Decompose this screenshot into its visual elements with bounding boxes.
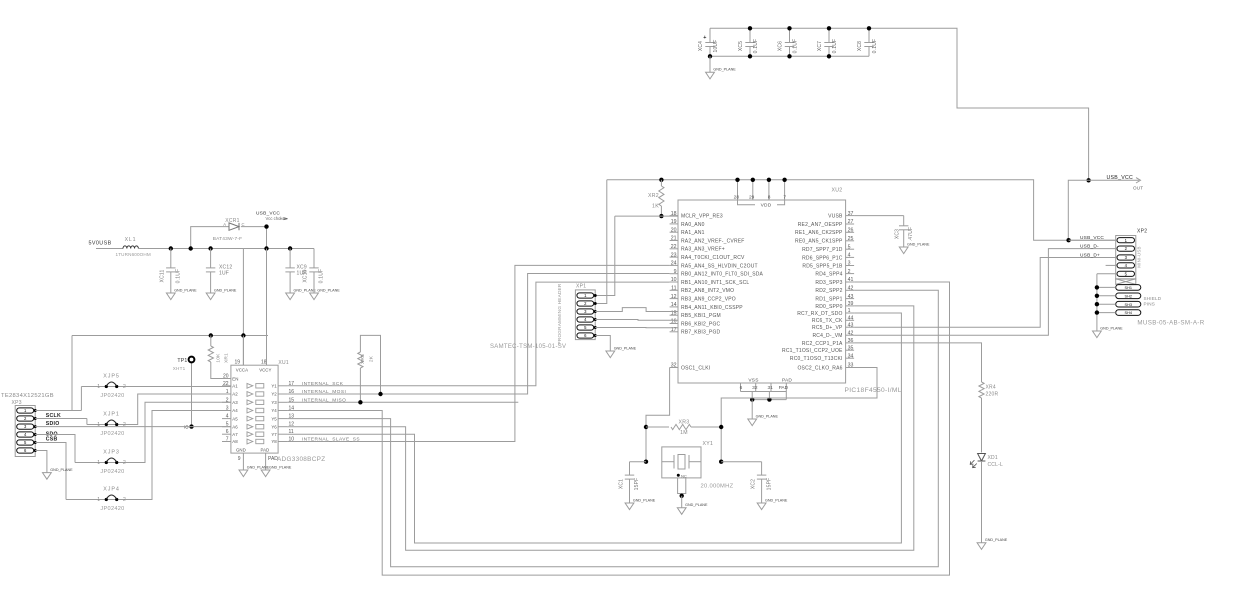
svg-text:1K: 1K: [652, 204, 659, 210]
svg-text:XC6: XC6: [778, 41, 784, 51]
svg-text:VCCA: VCCA: [236, 368, 248, 373]
svg-text:20: 20: [671, 227, 677, 233]
svg-text:GND_PLANE: GND_PLANE: [294, 288, 317, 292]
svg-text:CCL-L: CCL-L: [988, 462, 1003, 468]
svg-text:0.1UF: 0.1UF: [176, 269, 182, 284]
svg-text:220R: 220R: [986, 392, 999, 398]
svg-text:RB1_AN10_INT1_SCK_SCL: RB1_AN10_INT1_SCK_SCL: [681, 280, 749, 286]
svg-text:PAD: PAD: [782, 378, 792, 384]
svg-text:20.000MHZ: 20.000MHZ: [701, 484, 734, 490]
svg-text:XJP5: XJP5: [103, 374, 119, 380]
svg-text:A1: A1: [232, 384, 238, 389]
svg-text:2: 2: [123, 384, 126, 390]
svg-text:JP02420: JP02420: [100, 393, 124, 399]
svg-text:RB6_KBI2_PGC: RB6_KBI2_PGC: [681, 321, 721, 327]
svg-text:XC11: XC11: [159, 270, 165, 283]
svg-text:GND_PLANE: GND_PLANE: [985, 538, 1008, 542]
svg-text:Y5: Y5: [271, 416, 277, 421]
svg-text:XR5: XR5: [360, 354, 366, 364]
svg-text:Y7: Y7: [271, 432, 277, 437]
svg-text:11: 11: [671, 286, 676, 292]
svg-text:XU2: XU2: [832, 188, 843, 194]
svg-text:44: 44: [848, 316, 854, 322]
svg-text:Y4: Y4: [271, 408, 277, 413]
svg-text:2: 2: [123, 422, 126, 428]
svg-text:RD5_SPP5_P1B: RD5_SPP5_P1B: [802, 263, 843, 269]
svg-text:2: 2: [123, 460, 126, 466]
svg-text:C: C: [242, 222, 245, 227]
svg-text:MUSB-05-AB-SM-A-R: MUSB-05-AB-SM-A-R: [1137, 319, 1204, 326]
svg-text:11: 11: [289, 429, 294, 435]
svg-text:PAD: PAD: [268, 456, 278, 462]
svg-text:+: +: [703, 35, 706, 41]
svg-text:9: 9: [238, 456, 241, 462]
svg-text:PROGRAMMING HEADER: PROGRAMMING HEADER: [557, 283, 562, 344]
svg-text:RB0_AN12_INT0_FLT0_SDI_SDA: RB0_AN12_INT0_FLT0_SDI_SDA: [681, 272, 764, 278]
svg-text:RD7_SPP7_P1D: RD7_SPP7_P1D: [802, 247, 843, 253]
svg-text:RD2_SPP2: RD2_SPP2: [815, 288, 842, 294]
svg-text:7: 7: [226, 437, 229, 443]
svg-text:1: 1: [97, 422, 100, 428]
svg-text:18: 18: [261, 360, 267, 366]
svg-text:RA5_AN4_SS_HLVDIN_C2OUT: RA5_AN4_SS_HLVDIN_C2OUT: [681, 263, 758, 269]
svg-text:XC4: XC4: [698, 41, 704, 51]
svg-text:0.1UF: 0.1UF: [753, 39, 759, 54]
svg-text:XC7: XC7: [817, 41, 823, 51]
svg-text:GND_PLANE: GND_PLANE: [174, 288, 197, 292]
svg-text:Y2: Y2: [271, 392, 277, 397]
svg-text:A4: A4: [232, 408, 238, 413]
svg-text:VUSB: VUSB: [828, 214, 843, 220]
svg-text:GND_PLANE: GND_PLANE: [765, 498, 788, 502]
svg-text:18: 18: [671, 211, 677, 217]
svg-text:RD4_SPP4: RD4_SPP4: [815, 272, 842, 278]
svg-text:6: 6: [226, 429, 229, 435]
svg-text:Y6: Y6: [271, 424, 277, 429]
svg-text:8: 8: [768, 194, 771, 200]
svg-text:XJP4: XJP4: [103, 487, 119, 493]
svg-text:XR1: XR1: [223, 353, 229, 363]
svg-text:28: 28: [734, 194, 740, 200]
svg-text:XC2: XC2: [751, 479, 757, 489]
svg-text:RC6_TX_CK: RC6_TX_CK: [812, 318, 843, 324]
svg-text:JP02420: JP02420: [100, 469, 124, 475]
svg-text:INTERNAL_SCK: INTERNAL_SCK: [302, 381, 344, 387]
svg-text:A6: A6: [232, 424, 238, 429]
svg-text:21: 21: [671, 236, 677, 242]
svg-text:GND_PLANE: GND_PLANE: [614, 346, 637, 350]
svg-text:PAD: PAD: [261, 448, 270, 453]
svg-text:RA0_AN0: RA0_AN0: [681, 222, 705, 228]
svg-text:2: 2: [848, 269, 851, 275]
svg-text:XJP1: XJP1: [103, 412, 119, 418]
svg-text:15PF: 15PF: [766, 478, 772, 491]
svg-text:SDIO: SDIO: [46, 421, 60, 427]
svg-text:43: 43: [848, 294, 854, 300]
svg-text:A8: A8: [232, 439, 238, 444]
svg-text:XD1: XD1: [988, 455, 998, 461]
svg-text:USB_VCC: USB_VCC: [1107, 175, 1134, 181]
svg-text:RA4_T0CKI_C1OUT_RCV: RA4_T0CKI_C1OUT_RCV: [681, 255, 745, 261]
svg-text:GND_PLANE: GND_PLANE: [214, 288, 237, 292]
svg-text:TP1: TP1: [177, 358, 187, 364]
svg-text:GND_PLANE: GND_PLANE: [633, 498, 656, 502]
svg-text:SH3: SH3: [1125, 303, 1132, 307]
svg-text:RC5_D+_VP: RC5_D+_VP: [812, 325, 843, 331]
svg-text:2: 2: [123, 497, 126, 503]
svg-text:PAD: PAD: [779, 385, 789, 391]
svg-text:12: 12: [671, 294, 677, 300]
svg-text:XJP3: XJP3: [103, 450, 119, 456]
svg-text:RA3_AN3_VREF+: RA3_AN3_VREF+: [681, 247, 725, 253]
svg-text:A5: A5: [232, 416, 238, 421]
svg-text:RC7_RX_DT_SDO: RC7_RX_DT_SDO: [797, 311, 842, 317]
svg-text:JP02420: JP02420: [100, 506, 124, 512]
svg-text:GND_PLANE: GND_PLANE: [269, 465, 292, 469]
svg-text:31: 31: [767, 385, 773, 391]
svg-text:XL1: XL1: [125, 237, 137, 243]
svg-text:41: 41: [848, 277, 854, 283]
svg-text:0.1UF: 0.1UF: [319, 269, 325, 284]
svg-text:6: 6: [740, 385, 743, 391]
svg-text:RB4_AN11_KBI0_CSSPP: RB4_AN11_KBI0_CSSPP: [681, 305, 743, 311]
svg-text:37: 37: [848, 211, 854, 217]
svg-text:RA1_AN1: RA1_AN1: [681, 230, 705, 236]
svg-text:GND_PLANE: GND_PLANE: [756, 414, 779, 418]
svg-text:SHIELD: SHIELD: [1144, 296, 1162, 301]
svg-text:GND_PLANE: GND_PLANE: [907, 242, 930, 246]
svg-text:32: 32: [671, 363, 677, 369]
svg-text:RC1_T1OSI_CCP2_UOE: RC1_T1OSI_CCP2_UOE: [782, 348, 843, 354]
svg-text:A3: A3: [232, 400, 238, 405]
svg-text:BAT43W-7-F: BAT43W-7-F: [213, 236, 243, 242]
svg-text:JP02420: JP02420: [100, 431, 124, 437]
svg-text:23: 23: [671, 252, 677, 258]
svg-text:PIC18F4550-I/ML: PIC18F4550-I/ML: [845, 387, 902, 394]
svg-text:10: 10: [671, 277, 677, 283]
svg-text:RE0_AN5_CK1SPP: RE0_AN5_CK1SPP: [795, 239, 843, 245]
svg-text:1M: 1M: [680, 430, 688, 436]
svg-text:13: 13: [289, 414, 295, 420]
svg-text:Y3: Y3: [271, 400, 277, 405]
svg-text:RB7_KBI3_PGD: RB7_KBI3_PGD: [681, 330, 721, 336]
svg-text:RE2_AN7_OESPP: RE2_AN7_OESPP: [798, 222, 843, 228]
svg-text:43: 43: [848, 322, 854, 328]
svg-text:GND_PLANE: GND_PLANE: [713, 68, 736, 72]
svg-text:10K: 10K: [215, 353, 221, 363]
svg-text:.47UF: .47UF: [908, 227, 914, 242]
svg-text:10UF: 10UF: [713, 39, 719, 52]
svg-text:19: 19: [671, 219, 677, 225]
svg-text:RE1_AN6_CK2SPP: RE1_AN6_CK2SPP: [795, 230, 843, 236]
svg-text:25: 25: [848, 236, 854, 242]
svg-text:SH4: SH4: [1125, 311, 1132, 315]
svg-text:0.1UF: 0.1UF: [793, 39, 799, 54]
svg-text:RC4_D-_VM: RC4_D-_VM: [812, 333, 842, 339]
svg-text:XC5: XC5: [738, 41, 744, 51]
svg-text:16: 16: [289, 389, 295, 395]
svg-text:Y8: Y8: [271, 439, 277, 444]
svg-text:XP2: XP2: [1137, 229, 1147, 235]
svg-text:XC3: XC3: [895, 229, 901, 239]
svg-text:RD3_SPP3: RD3_SPP3: [815, 280, 842, 286]
svg-text:MCLR_VPP_RE3: MCLR_VPP_RE3: [681, 214, 723, 220]
svg-text:29: 29: [749, 194, 755, 200]
svg-text:OUT: OUT: [1133, 186, 1143, 191]
svg-text:XC1: XC1: [618, 479, 624, 489]
svg-text:NC: NC: [681, 474, 687, 479]
svg-text:1: 1: [97, 497, 100, 503]
svg-text:27: 27: [848, 219, 854, 225]
svg-text:USB_D+: USB_D+: [1080, 253, 1100, 259]
svg-text:VSS: VSS: [748, 378, 758, 384]
svg-text:XR4: XR4: [986, 385, 996, 391]
svg-text:GND: GND: [236, 448, 246, 453]
svg-text:XR3: XR3: [679, 419, 690, 425]
svg-text:A: A: [223, 222, 226, 227]
svg-text:36: 36: [848, 338, 854, 344]
svg-text:SAMTEC-TSM-105-01-SV: SAMTEC-TSM-105-01-SV: [490, 344, 566, 350]
svg-text:RB5_KBI1_PGM: RB5_KBI1_PGM: [681, 313, 721, 319]
svg-text:PINS: PINS: [1144, 302, 1156, 307]
svg-text:42: 42: [848, 330, 854, 336]
svg-text:INTERNAL_SLAVE_SS: INTERNAL_SLAVE_SS: [302, 437, 360, 443]
svg-text:VCCY: VCCY: [259, 368, 271, 373]
svg-text:35: 35: [848, 345, 854, 351]
svg-text:EN: EN: [232, 376, 238, 381]
svg-text:26: 26: [848, 228, 854, 234]
svg-text:RC2_CCP1_P1A: RC2_CCP1_P1A: [802, 341, 843, 347]
svg-text:XCR1: XCR1: [225, 218, 240, 224]
svg-text:5: 5: [848, 244, 851, 250]
svg-text:MINI-USB: MINI-USB: [1137, 246, 1142, 267]
svg-text:SH2: SH2: [1125, 294, 1132, 298]
svg-text:GND_PLANE: GND_PLANE: [1100, 326, 1123, 330]
svg-text:GND_PLANE: GND_PLANE: [50, 468, 73, 472]
svg-text:RD6_SPP6_P1C: RD6_SPP6_P1C: [802, 255, 843, 261]
svg-text:ADG3308BCPZ: ADG3308BCPZ: [277, 456, 325, 463]
svg-text:16: 16: [671, 319, 677, 325]
svg-text:24: 24: [671, 261, 677, 267]
svg-text:XP1: XP1: [576, 284, 586, 290]
svg-text:39: 39: [848, 301, 854, 307]
svg-text:XY1: XY1: [703, 441, 714, 447]
svg-text:USB_VCC: USB_VCC: [1080, 235, 1104, 241]
svg-text:3: 3: [848, 261, 851, 267]
svg-text:INTERNAL_MOSI: INTERNAL_MOSI: [302, 389, 347, 395]
svg-text:19: 19: [234, 360, 240, 366]
svg-text:Y1: Y1: [271, 384, 277, 389]
svg-text:RC0_T1OSO_T13CKI: RC0_T1OSO_T13CKI: [790, 356, 843, 362]
svg-text:Vcc choke: Vcc choke: [266, 216, 286, 221]
svg-text:XC8: XC8: [857, 41, 863, 51]
svg-text:4: 4: [226, 414, 229, 420]
svg-text:12: 12: [289, 422, 295, 428]
svg-text:VDD: VDD: [761, 203, 772, 209]
svg-text:RA2_AN2_VREF-_CVREF: RA2_AN2_VREF-_CVREF: [681, 238, 745, 244]
svg-text:1TURN600OHM: 1TURN600OHM: [116, 252, 151, 257]
svg-text:GND_PLANE: GND_PLANE: [247, 465, 270, 469]
svg-text:10: 10: [289, 437, 295, 443]
svg-text:XC10: XC10: [303, 269, 309, 282]
svg-text:OSC2_CLKO_RA6: OSC2_CLKO_RA6: [797, 365, 842, 371]
svg-text:1UF: 1UF: [219, 270, 229, 276]
svg-text:22: 22: [223, 381, 229, 387]
svg-text:9: 9: [674, 269, 677, 275]
svg-text:A7: A7: [232, 432, 238, 437]
svg-text:SH1: SH1: [1125, 286, 1132, 290]
svg-text:14: 14: [671, 302, 677, 308]
svg-text:XU1: XU1: [278, 360, 289, 366]
svg-text:1: 1: [97, 384, 100, 390]
svg-text:14: 14: [289, 406, 295, 412]
svg-text:15: 15: [289, 397, 295, 403]
svg-text:RB3_AN9_CCP2_VPO: RB3_AN9_CCP2_VPO: [681, 297, 736, 303]
svg-text:XHT1: XHT1: [173, 366, 186, 371]
svg-text:22: 22: [671, 244, 677, 250]
svg-text:XR2: XR2: [648, 193, 659, 199]
svg-text:1: 1: [97, 460, 100, 466]
svg-text:15PF: 15PF: [634, 478, 640, 491]
svg-text:RD1_SPP1: RD1_SPP1: [815, 297, 842, 303]
svg-text:32: 32: [752, 385, 758, 391]
svg-text:1: 1: [848, 308, 851, 314]
svg-text:OSC1_CLKI: OSC1_CLKI: [681, 365, 710, 371]
svg-text:INTERNAL_MISO: INTERNAL_MISO: [302, 397, 347, 403]
svg-text:GND_PLANE: GND_PLANE: [685, 503, 708, 507]
svg-text:USB_D-: USB_D-: [1080, 244, 1099, 250]
svg-text:CSB: CSB: [46, 437, 58, 443]
svg-text:0.1UF: 0.1UF: [832, 39, 838, 54]
svg-text:5V0USB: 5V0USB: [89, 240, 112, 246]
svg-text:17: 17: [289, 381, 295, 387]
svg-text:GND_PLANE: GND_PLANE: [317, 288, 340, 292]
svg-text:RB2_AN8_INT2_VMO: RB2_AN8_INT2_VMO: [681, 288, 734, 294]
svg-text:0.1UF: 0.1UF: [872, 39, 878, 54]
svg-text:2K: 2K: [369, 355, 375, 362]
svg-text:42: 42: [848, 286, 854, 292]
svg-text:RD0_SPP0: RD0_SPP0: [815, 304, 842, 310]
svg-text:4: 4: [848, 253, 851, 259]
svg-text:A2: A2: [232, 392, 238, 397]
svg-text:20: 20: [223, 374, 229, 380]
svg-text:7: 7: [783, 194, 786, 200]
svg-text:TE2834X12521GB: TE2834X12521GB: [1, 393, 54, 399]
svg-text:34: 34: [848, 353, 854, 359]
